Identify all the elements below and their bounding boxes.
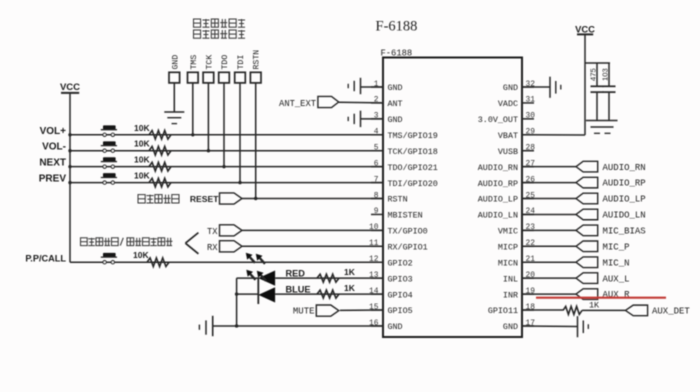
svg-text:TDO/GPIO21: TDO/GPIO21 [388,163,438,173]
svg-text:RSTN: RSTN [253,50,262,70]
wire pin20 to port [522,277,576,279]
test pad RSTN [250,50,261,83]
svg-text:AUDIO_LP: AUDIO_LP [603,195,646,205]
ground at pin1 [348,78,360,94]
svg-text:AUDIO_LN: AUDIO_LN [478,211,518,221]
svg-text:NEXT: NEXT [39,158,66,169]
svg-text:10: 10 [369,223,379,232]
wire VCC rail [69,93,71,262]
svg-text:GND: GND [388,115,403,125]
junction VCC/VOL+ [68,133,71,136]
svg-text:TCK: TCK [205,55,214,70]
pin 29 stub [522,134,534,136]
connector MUTE [316,305,339,316]
pin 27 stub [522,166,534,168]
svg-text:ANT_EXT: ANT_EXT [279,99,316,109]
wire pin27 to port [522,166,576,168]
resistor 10K VOL- [149,146,171,155]
pin 12 stub [371,261,383,263]
test pad TMS [188,55,199,83]
wire VOL+ row [70,134,383,136]
svg-text:GND: GND [503,322,518,332]
svg-text:TDI: TDI [237,55,246,70]
svg-text:AUDIO_LP: AUDIO_LP [478,195,518,205]
resistor 10K VOL+ [149,131,171,140]
connector RESET [220,193,243,204]
svg-text:BLUE: BLUE [286,284,311,294]
test pad TCK [203,55,214,83]
pin 11 stub [371,245,383,247]
junction TDI/row [238,181,241,184]
wire LED cathode drop [236,278,238,326]
wire blue cathode link [237,293,259,295]
svg-text:GPIO5: GPIO5 [388,306,413,316]
wire NEXT row [70,166,383,168]
wire bottom GND row [213,325,383,327]
port AUX_R [576,289,598,300]
pin 21 stub [522,261,534,263]
svg-text:GND: GND [171,55,180,70]
pin 20 stub [522,277,534,279]
wire VOL- row [70,150,383,152]
pin 17 stub [522,325,534,327]
wire MUTE row [340,309,383,311]
LED D2 emission arrows [246,270,266,281]
pin 28 stub [522,150,534,152]
wire pin18 to resistor [522,309,563,311]
svg-text:3.0V_OUT: 3.0V_OUT [478,115,518,125]
svg-text:11: 11 [369,239,379,248]
svg-text:RX: RX [207,243,218,253]
junction TDO/row [222,165,225,168]
svg-text:30: 30 [526,112,536,121]
wire pin1 GND [361,86,384,88]
svg-text:9: 9 [374,207,379,216]
svg-text:13: 13 [369,271,379,280]
switch VOL- [101,141,117,152]
wire TDO pad down to row [223,83,225,167]
resistor 1K RED [317,274,339,282]
connector TX [220,225,243,236]
wire pin19 to port [522,293,576,295]
wire RED row [275,277,383,279]
svg-text:GPIO11: GPIO11 [488,306,518,316]
svg-text:10K: 10K [134,155,150,165]
pin 26 stub [522,182,534,184]
resistor 1K AUX_DET [563,306,582,314]
svg-text:AUIDO_LN: AUIDO_LN [603,211,646,221]
svg-text:TCK/GPIO18: TCK/GPIO18 [388,147,438,157]
svg-text:VOL-: VOL- [42,142,66,153]
connector RX [220,241,243,252]
svg-text:VBAT: VBAT [498,131,518,141]
svg-text:1K: 1K [589,301,600,311]
bracket debug interface [185,233,198,244]
wire VCC down [584,34,586,135]
wire pin21 to port [522,261,576,263]
svg-text:15: 15 [369,303,379,312]
wire P.P/CALL row [70,261,383,263]
svg-text:AUDIO_RP: AUDIO_RP [603,179,646,189]
port AUDIO_RP [576,177,598,188]
IC U1 F-6188 [383,58,522,338]
test pad TDI [235,55,246,83]
svg-text:VUSB: VUSB [498,147,518,157]
wire pin32 to ground [522,86,550,88]
svg-text:AUX_DET: AUX_DET [652,306,690,316]
ground under GND pad [164,112,184,124]
pin 30 stub [522,118,534,120]
pin 7 stub [371,182,383,184]
svg-text:TMS: TMS [190,55,199,70]
svg-text:10K: 10K [134,139,150,149]
power VCC right [575,24,595,35]
wire pin26 to port [522,182,576,184]
svg-text:MIC_N: MIC_N [603,258,630,268]
svg-text:TX: TX [207,227,218,237]
svg-text:103: 103 [601,68,610,81]
pin 32 stub [522,86,534,88]
port AUDIO_RN [576,161,598,172]
ground bottom-left [199,316,212,336]
svg-text:GND: GND [388,322,403,332]
svg-text:GPIO2: GPIO2 [388,258,413,268]
junction TMS/row [191,133,194,136]
svg-text:MICP: MICP [498,243,518,253]
svg-text:GPIO3: GPIO3 [388,274,413,284]
power VCC left [60,82,80,93]
svg-text:14: 14 [369,287,379,296]
pin 6 stub [371,166,383,168]
svg-text:F-6188: F-6188 [381,48,413,58]
pin 8 stub [371,198,383,200]
wire ANT row [339,101,383,104]
junction cathode/blue [235,292,238,295]
junction TCK/row [207,149,210,152]
wire cap branch [585,62,610,64]
ground under caps [586,121,618,134]
pin 25 stub [522,198,534,200]
svg-text:3: 3 [374,112,379,121]
svg-text:VOL+: VOL+ [40,126,67,137]
ground at pin17 [578,316,589,337]
wire pin24 to port [522,213,576,215]
note software-upgrade-port (CJK) line1 [194,19,246,27]
wire VBAT to VCC [522,134,585,136]
pin 1 stub [371,86,383,88]
svg-text:INL: INL [503,274,518,284]
svg-text:4: 4 [374,128,379,137]
svg-text:AUX_L: AUX_L [603,274,630,284]
svg-text:GND: GND [503,83,518,93]
svg-text:AUDIO_RN: AUDIO_RN [603,163,646,173]
svg-text:VMIC: VMIC [498,227,518,237]
switch VOL+ [101,125,117,136]
port MIC_P [576,241,598,252]
svg-text:VCC: VCC [575,24,595,35]
LED D1 emission arrows [246,253,265,264]
pin 5 stub [371,150,383,152]
svg-text:2: 2 [374,96,379,105]
svg-text:TDI/GPIO20: TDI/GPIO20 [388,179,438,189]
svg-text:TMS/GPIO19: TMS/GPIO19 [388,131,438,141]
junction VCC/PREV [68,181,71,184]
wire TCK pad down to row [207,83,209,151]
svg-text:10K: 10K [133,250,149,260]
svg-text:16: 16 [369,319,379,328]
switch P.P/CALL [101,253,117,264]
wire RESET row [242,198,383,200]
pin 23 stub [522,229,534,231]
wire pin17 to ground [522,325,578,328]
pin 24 stub [522,213,534,215]
svg-text:475: 475 [589,68,598,81]
wire resistor to AUX_DET [582,309,625,311]
junction VCC/VOL- [68,149,71,152]
svg-text:RESET: RESET [190,194,219,204]
svg-text:5: 5 [374,144,379,153]
port MIC_BIAS [576,225,598,236]
ground at pin3 [348,111,360,127]
svg-text:10K: 10K [134,123,150,133]
svg-text:31: 31 [526,96,536,105]
switch PREV [101,173,117,184]
pin 2 stub [371,102,383,104]
wire RX row [242,245,383,247]
capacitor C1 475 [589,63,604,121]
svg-text:MIC_BIAS: MIC_BIAS [603,226,646,236]
ground at pin32 [550,77,561,98]
svg-text:AUDIO_RP: AUDIO_RP [478,179,518,189]
note debug-interface (CJK) [81,238,173,246]
resistor 10K P.P/CALL [147,258,169,267]
resistor 10K PREV [149,178,171,187]
svg-text:VCC: VCC [60,82,80,93]
pin 3 stub [371,118,383,120]
wire red cathode link [237,277,259,279]
pin 13 stub [371,277,383,279]
wire GND pad down [173,83,175,112]
pin 14 stub [371,293,383,295]
resistor 1K BLUE [317,290,339,298]
svg-text:MICN: MICN [498,258,518,268]
pin 19 stub [522,293,534,295]
wire pin23 to port [522,229,576,231]
pin 9 stub [371,213,383,215]
svg-text:F-6188: F-6188 [376,19,418,35]
wire TX row [242,229,383,231]
svg-text:28: 28 [526,144,536,153]
svg-text:MUTE: MUTE [293,307,315,317]
note reserved-test-pads (CJK) line2 [194,30,246,38]
pin 10 stub [371,229,383,231]
port AUDIO_LP [576,193,598,204]
svg-text:6: 6 [374,159,379,168]
port AUIDO_LN [576,209,598,220]
svg-text:PREV: PREV [39,174,67,185]
svg-text:INR: INR [503,290,518,300]
svg-text:12: 12 [369,255,379,264]
LED D2 BLUE [258,287,275,302]
svg-text:VADC: VADC [498,99,518,109]
pin 16 stub [371,325,383,327]
svg-text:RX/GPIO1: RX/GPIO1 [388,243,428,253]
svg-text:1K: 1K [344,267,356,277]
port AUX_DET [625,305,647,316]
highlight AUX_R red underline [536,297,666,299]
svg-text:7: 7 [374,175,379,184]
svg-text:RED: RED [286,268,306,278]
test pad GND [169,55,180,83]
pin 22 stub [522,245,534,247]
svg-text:MIC_P: MIC_P [603,242,630,252]
wire pin3 GND [361,118,384,120]
svg-text:8: 8 [374,191,379,200]
test pad TDO [219,55,230,83]
wire TDI pad down to row [239,83,241,183]
wire pin22 to port [522,245,576,247]
capacitor C2 103 [601,63,616,121]
wire PREV row [70,182,383,184]
pin 4 stub [371,134,383,136]
svg-text:MBISTEN: MBISTEN [388,211,423,221]
svg-text:AUDIO_RN: AUDIO_RN [478,163,518,173]
junction RSTN/row [254,197,257,200]
wire TMS pad down to row [192,83,194,135]
svg-text:RSTN: RSTN [388,195,408,205]
LED D1 RED [258,271,275,286]
wire BLUE row [275,293,383,295]
switch NEXT [101,157,117,168]
note low-level-reset (CJK) [138,195,179,203]
junction VCC/NEXT [68,165,71,168]
LED cathode bar [257,277,259,304]
resistor 10K NEXT [149,162,171,171]
svg-text:TX/GPIO0: TX/GPIO0 [388,227,428,237]
wire RSTN pad down to row [255,83,257,199]
pin 18 stub [522,309,534,311]
svg-text:ANT: ANT [388,99,403,109]
junction cathode/bottom [235,324,238,327]
svg-text:1K: 1K [344,283,356,293]
pin 31 stub [522,102,534,104]
connector ANT_EXT [318,96,339,107]
svg-text:1: 1 [374,80,379,89]
svg-text:GPIO4: GPIO4 [388,290,413,300]
svg-text:TDO: TDO [221,55,230,70]
svg-text:GND: GND [388,83,403,93]
svg-text:P.P/CALL: P.P/CALL [25,254,66,264]
port AUX_L [576,273,598,284]
wire pin25 to port [522,198,576,200]
pin 15 stub [371,309,383,311]
svg-text:10K: 10K [134,171,150,181]
port MIC_N [576,257,598,268]
